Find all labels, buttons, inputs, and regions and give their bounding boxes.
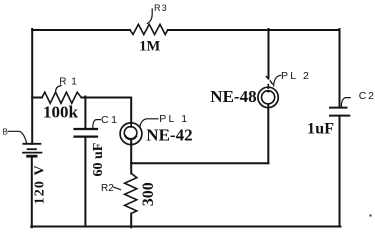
label B bbox=[3, 128, 8, 137]
label C1 leader bbox=[93, 120, 100, 128]
label R1 leader bbox=[56, 86, 61, 92]
wire PL2 top dashes bbox=[266, 77, 272, 89]
value NE-48 bbox=[210, 87, 256, 106]
value 120 V (rotated) bbox=[32, 164, 47, 204]
neon lamp PL1 bbox=[120, 123, 142, 145]
svg-text:C1: C1 bbox=[101, 114, 119, 126]
wire R2 top stub bbox=[130, 163, 132, 174]
battery B bbox=[23, 144, 41, 156]
wire C1 branch top bbox=[84, 97, 86, 130]
wire bottom bbox=[31, 226, 340, 228]
svg-text:100k: 100k bbox=[43, 103, 79, 122]
capacitor C1 bbox=[75, 129, 98, 137]
svg-text:C2: C2 bbox=[359, 90, 375, 102]
svg-text:300: 300 bbox=[140, 182, 157, 206]
svg-text:PL 1: PL 1 bbox=[159, 113, 189, 125]
svg-text:B: B bbox=[3, 128, 8, 137]
svg-text:120 V: 120 V bbox=[32, 164, 47, 204]
wire PL2 top bbox=[268, 29, 270, 79]
value 1M bbox=[139, 38, 160, 54]
label PL1 bbox=[159, 113, 189, 125]
label R1 bbox=[59, 76, 78, 87]
wire left lower (battery to bottom) bbox=[31, 156, 33, 227]
resistor R2 bbox=[125, 173, 137, 213]
svg-text:NE-42: NE-42 bbox=[146, 125, 192, 144]
svg-text:1M: 1M bbox=[139, 38, 160, 54]
label R3 leader bbox=[147, 9, 152, 24]
label C2 bbox=[359, 90, 375, 102]
wire R2 bottom stub bbox=[130, 214, 132, 228]
value 300 (rotated) bbox=[140, 182, 157, 206]
label C1 bbox=[101, 114, 119, 126]
wire left upper bbox=[31, 29, 33, 144]
value 1uF bbox=[307, 121, 334, 138]
label R3 bbox=[154, 3, 168, 13]
wire PL2 bottom bbox=[267, 105, 269, 164]
label PL1 leader bbox=[140, 119, 158, 126]
wire right upper (to C2) bbox=[339, 29, 341, 108]
wire middle horizontal bbox=[131, 162, 268, 164]
wire top-right segment bbox=[168, 29, 340, 31]
label C2 leader bbox=[341, 98, 350, 107]
svg-text:1uF: 1uF bbox=[307, 121, 334, 138]
svg-text:60 uF: 60 uF bbox=[91, 143, 106, 177]
wire right lower bbox=[339, 116, 341, 227]
label PL2 bbox=[281, 70, 311, 82]
svg-text:PL 2: PL 2 bbox=[281, 70, 311, 82]
neon lamp PL2 bbox=[258, 87, 278, 107]
wire C1 branch bottom bbox=[84, 137, 86, 227]
label PL2 leader bbox=[274, 75, 281, 86]
wire top-left segment bbox=[32, 29, 130, 31]
wire R1 left stub bbox=[32, 97, 42, 99]
svg-text:NE-48: NE-48 bbox=[210, 87, 256, 106]
svg-text:R 1: R 1 bbox=[59, 76, 78, 87]
label R2 leader bbox=[114, 187, 121, 189]
capacitor C2 bbox=[330, 108, 349, 116]
value 60 uF (rotated) bbox=[91, 143, 106, 177]
label B leader bbox=[8, 131, 26, 142]
resistor R1 bbox=[42, 92, 81, 103]
wire R1 to PL1 corner bbox=[82, 98, 132, 128]
label R2 bbox=[101, 183, 114, 194]
svg-text:R2: R2 bbox=[101, 183, 114, 194]
value 100k bbox=[43, 103, 79, 122]
value NE-42 bbox=[146, 125, 192, 144]
speck bbox=[370, 215, 372, 217]
wire PL1 bottom bbox=[130, 141, 132, 163]
svg-text:R3: R3 bbox=[154, 3, 168, 13]
resistor R3 bbox=[130, 24, 168, 34]
